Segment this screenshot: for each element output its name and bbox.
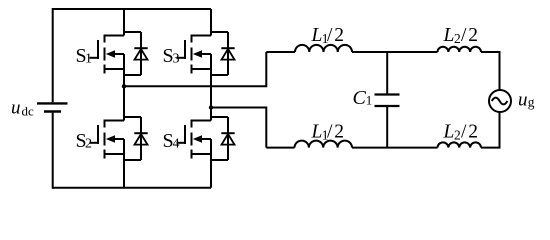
transistor S4 source stub (191, 153, 212, 155)
svg-text:C: C (353, 87, 367, 109)
transistor S3 body-source vertical (210, 54, 212, 69)
label S4 (163, 130, 180, 152)
svg-text:/: / (327, 122, 333, 143)
transistor S1 body-source vertical (123, 54, 125, 69)
transistor S2 drain vertical (123, 86, 125, 120)
diode D2 top lead (124, 116, 141, 118)
svg-text:2: 2 (454, 31, 461, 46)
label C1 (353, 87, 373, 109)
transistor S4 body-source vertical (210, 139, 212, 154)
svg-text:g: g (528, 95, 535, 110)
transistor S3 drain stub (191, 35, 212, 37)
transistor S3 channel dashes (191, 35, 193, 74)
svg-text:L: L (311, 122, 323, 143)
transistor S2 gate lead (90, 142, 99, 144)
diode D2 cathode bar (134, 132, 147, 134)
dc source u_dc positive plate (37, 102, 68, 104)
transistor S1 gate lead (90, 57, 99, 59)
transistor S3 body arrow (193, 50, 211, 58)
svg-text:u: u (11, 98, 21, 119)
label S3 (163, 45, 180, 67)
transistor S2 drain stub (104, 120, 125, 122)
label L1/2 top (311, 25, 345, 46)
transistor S1 gate bar (97, 40, 99, 59)
capacitor C1 top plate (375, 93, 400, 95)
transistor S3 gate bar (184, 40, 186, 59)
transistor S4 drain vertical (210, 108, 212, 121)
inductor L1/2 bottom (295, 141, 353, 148)
svg-text:2: 2 (468, 122, 478, 143)
diode D4 top lead (211, 116, 228, 118)
transistor S1 channel dashes (104, 35, 106, 74)
diode D4 vertical (227, 117, 229, 160)
diode D4 cathode bar (221, 132, 234, 134)
dc source u_dc negative plate (44, 110, 61, 112)
wire: upper bridge output (124, 52, 295, 87)
ac source u_g sine wave (492, 98, 508, 105)
wire: bottom filter rail middle (352, 147, 438, 149)
transistor S4 source vertical (210, 154, 212, 188)
label L2/2 top (443, 25, 479, 46)
transistor S4 gate bar (184, 125, 186, 144)
wire: left DC branch upper (52, 8, 54, 102)
node: right leg midpoint junction (209, 105, 213, 109)
svg-text:2: 2 (468, 25, 478, 46)
svg-text:4: 4 (173, 137, 180, 152)
svg-text:1: 1 (85, 52, 92, 67)
svg-text:2: 2 (85, 137, 92, 152)
diode D2 triangle (135, 134, 148, 145)
svg-text:2: 2 (334, 25, 344, 46)
svg-text:/: / (327, 25, 333, 46)
ac source u_g circle (489, 90, 511, 112)
diode D3 cathode bar (221, 47, 234, 49)
transistor S2 body-source vertical (123, 139, 125, 154)
transistor S4 drain stub (191, 120, 212, 122)
transistor S1 source vertical (123, 69, 125, 86)
label u_dc (11, 98, 34, 119)
transistor S3 gate lead (177, 57, 186, 59)
svg-text:L: L (443, 122, 455, 143)
svg-text:L: L (443, 25, 455, 46)
label L2/2 bottom (443, 122, 479, 143)
wire: top right to grid (481, 51, 500, 90)
svg-text:/: / (461, 122, 467, 143)
diode D2 bottom lead (124, 159, 141, 161)
inductor L2/2 top (438, 47, 482, 52)
svg-text:2: 2 (334, 122, 344, 143)
diode D3 top lead (211, 31, 228, 33)
diode D3 vertical (227, 32, 229, 75)
svg-text:1: 1 (366, 93, 373, 108)
transistor S2 body arrow (106, 135, 124, 143)
svg-text:/: / (461, 25, 467, 46)
diode D1 vertical (140, 32, 142, 75)
diode D2 vertical (140, 117, 142, 160)
transistor S4 gate lead (177, 142, 186, 144)
diode D3 bottom lead (211, 74, 228, 76)
svg-text:L: L (311, 25, 323, 46)
transistor S1 drain stub (104, 35, 125, 37)
diode D1 bottom lead (124, 74, 141, 76)
transistor S1 body arrow (106, 50, 124, 58)
diode D1 cathode bar (134, 47, 147, 49)
svg-text:dc: dc (22, 104, 35, 119)
capacitor C1 top lead (386, 52, 388, 95)
wire: top filter rail middle (352, 51, 438, 53)
transistor S2 channel dashes (104, 120, 106, 159)
capacitor C1 bottom lead (386, 106, 388, 148)
transistor S2 gate bar (97, 125, 99, 144)
label L1/2 bottom (311, 122, 345, 143)
diode D4 triangle (222, 134, 235, 145)
wire: bottom right to grid (481, 112, 500, 149)
diode D1 top lead (124, 31, 141, 33)
svg-text:3: 3 (173, 52, 180, 67)
transistor S1 source stub (104, 68, 125, 70)
label S2 (76, 130, 93, 152)
transistor S3 source vertical (210, 69, 212, 107)
diode D4 bottom lead (211, 159, 228, 161)
transistor S3 drain vertical (210, 9, 212, 36)
wire: top DC rail (53, 8, 211, 10)
wire: lower bridge output (211, 107, 295, 148)
transistor S4 channel dashes (191, 120, 193, 159)
inductor L2/2 bottom (438, 142, 482, 147)
node: left leg midpoint junction (122, 84, 126, 88)
transistor S3 source stub (191, 68, 212, 70)
transistor S2 source vertical (123, 154, 125, 188)
capacitor C1 bottom plate (375, 105, 400, 107)
transistor S2 source stub (104, 153, 125, 155)
diode D3 triangle (222, 49, 235, 60)
svg-text:2: 2 (454, 127, 461, 142)
svg-text:u: u (518, 89, 528, 110)
inductor L1/2 top (295, 45, 352, 52)
transistor S1 drain vertical (123, 9, 125, 36)
label S1 (76, 45, 93, 67)
label u_g (518, 89, 535, 110)
transistor S4 body arrow (193, 135, 211, 143)
wire: left DC branch lower (52, 113, 54, 189)
wire: bottom DC rail (53, 187, 211, 189)
diode D1 triangle (135, 49, 148, 60)
